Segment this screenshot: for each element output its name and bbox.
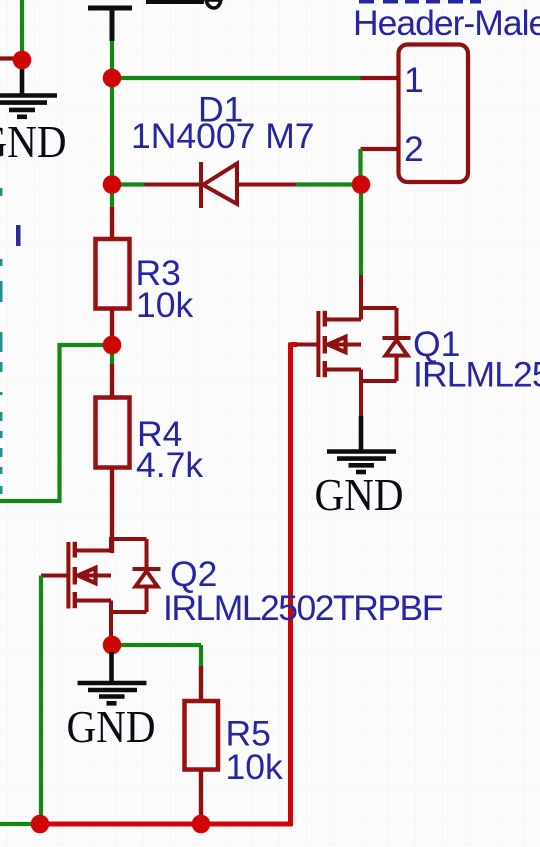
- diode D1 1N4007: [145, 162, 297, 208]
- transistor Q1 IRLML2502: [296, 275, 411, 418]
- resistor R3 pin bottom: [110, 309, 114, 346]
- svg-text:GND: GND: [0, 116, 67, 167]
- wire diode anode side: [296, 182, 361, 186]
- wire diode cathode side: [112, 182, 145, 186]
- resistor R4 pin top: [110, 364, 114, 398]
- node junction top-left: [13, 51, 32, 70]
- header pin 1 stub: [361, 76, 399, 80]
- svg-text:2: 2: [404, 129, 424, 169]
- node junction R5 bottom: [192, 815, 211, 834]
- ground (Q1 source): [327, 416, 396, 472]
- resistor R5 pin top: [199, 666, 203, 701]
- node junction Q2 source: [103, 636, 122, 655]
- svg-text:IRLML2502TRPBF: IRLML2502TRPBF: [413, 355, 540, 395]
- svg-text:4.7k: 4.7k: [136, 445, 203, 485]
- wire to header pin 1: [112, 76, 361, 80]
- resistor R4 pin bottom to Q2 drain: [110, 467, 114, 553]
- resistor R3 body: [96, 239, 130, 309]
- wire bottom-left to edge: [0, 822, 40, 826]
- wire left branch vertical: [57, 343, 61, 501]
- svg-text:10k: 10k: [226, 747, 283, 787]
- svg-text:Header-Male-: Header-Male-: [353, 3, 540, 43]
- battery label remnant (bottom of "Battery" text, cut at top edge): [146, 0, 221, 8]
- wire from left edge to top-left node: [0, 56, 22, 60]
- header pin 2 stub: [361, 147, 399, 151]
- wire down to R5: [199, 645, 203, 667]
- header designator remnant (bottom of text, cut at top edge): [359, 0, 481, 4]
- wire R3/R4 node down: [110, 345, 114, 365]
- wire R3/R4 node to left: [60, 343, 113, 347]
- wire Q1 gate stub (red net): [291, 342, 298, 347]
- node junction (pin2 / anode / Q1 drain): [352, 175, 371, 194]
- wire to left edge: [0, 499, 62, 503]
- ground (Q2 source): [78, 652, 147, 703]
- svg-text:10k: 10k: [136, 285, 193, 325]
- wire from header pin 2 down: [358, 149, 362, 185]
- node junction battery/header pin1: [103, 69, 122, 88]
- svg-text:1: 1: [404, 60, 424, 100]
- node junction (diode cathode net): [103, 175, 122, 194]
- wire Q1 gate vertical (red net): [288, 343, 293, 827]
- svg-text:IRLML2502TRPBF: IRLML2502TRPBF: [163, 588, 443, 628]
- stray blue mark left edge: [16, 225, 21, 246]
- wire bottom bus (red net): [40, 822, 293, 827]
- battery B1 terminal stub (cut off at top): [88, 8, 132, 41]
- svg-text:GND: GND: [315, 469, 404, 520]
- wire top-left vertical: [20, 0, 24, 60]
- transistor Q2 IRLML2502TRPBF: [41, 537, 161, 645]
- header P1 Header-Male box: [399, 45, 469, 183]
- svg-text:GND: GND: [67, 701, 156, 752]
- resistor R3 pin top: [110, 207, 114, 239]
- wire Q2 source to R5 horizontal: [112, 643, 201, 647]
- resistor R4 body: [96, 398, 130, 468]
- wire (battery + to header/diode net): [110, 41, 114, 209]
- node junction R3/R4: [103, 336, 122, 355]
- resistor R5 body: [185, 701, 219, 770]
- wire Q2 gate (green): [39, 576, 43, 825]
- node junction bottom-left: [31, 815, 50, 834]
- net label remnants at left edge (teal): [0, 188, 3, 494]
- svg-text:1N4007 M7: 1N4007 M7: [131, 116, 315, 156]
- resistor R5 pin bottom: [199, 769, 203, 824]
- ground (top-left): [0, 60, 57, 117]
- wire header pin2 to Q1 drain: [359, 185, 363, 276]
